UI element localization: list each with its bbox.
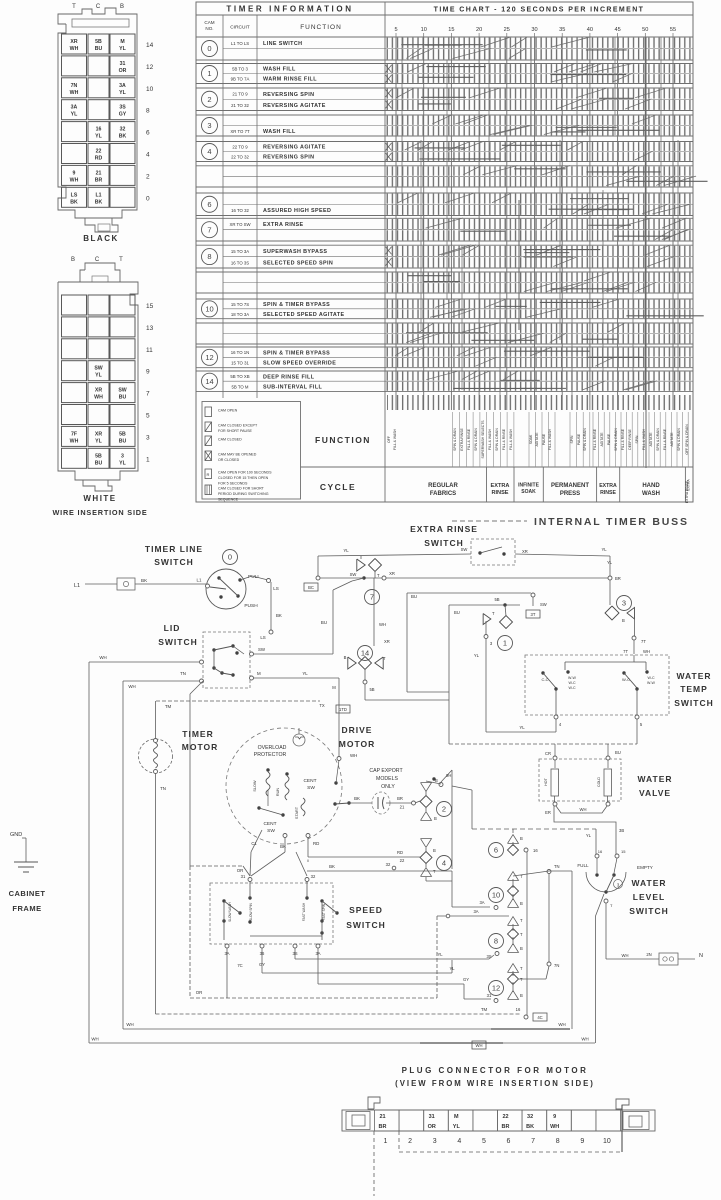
svg-text:VALVE: VALVE	[639, 788, 671, 798]
wire 9 vertical right	[451, 770, 453, 869]
svg-text:T: T	[520, 977, 523, 982]
svg-text:55: 55	[670, 27, 676, 33]
svg-text:14: 14	[361, 649, 369, 658]
legend box	[202, 402, 301, 500]
water valve hot coil	[553, 756, 557, 760]
time chart band cam 8	[386, 246, 692, 256]
speed switch terminal 31	[248, 878, 252, 882]
svg-text:BK: BK	[526, 1124, 534, 1130]
svg-text:LS: LS	[260, 635, 265, 640]
svg-text:1: 1	[503, 639, 507, 648]
svg-text:2: 2	[146, 173, 150, 180]
wire TN below timer motor	[155, 773, 157, 1014]
timer table row cam 14	[196, 370, 693, 372]
svg-text:SLOW WASH: SLOW WASH	[228, 901, 232, 921]
internal timer buss legend	[452, 520, 527, 522]
wire capacitor to cam 2	[386, 802, 412, 804]
svg-text:WH: WH	[550, 1124, 559, 1130]
svg-text:21: 21	[379, 1114, 385, 1120]
timer table row cam 10	[196, 298, 693, 300]
speed switch group 1	[222, 899, 225, 902]
svg-text:WATER: WATER	[676, 671, 711, 681]
svg-text:5: 5	[146, 413, 150, 420]
cam 12 group	[489, 981, 504, 996]
svg-text:FAST SPIN: FAST SPIN	[322, 903, 326, 920]
svg-text:L1 TO LS: L1 TO LS	[231, 41, 249, 46]
drive motor M terminal	[337, 757, 341, 761]
svg-text:4: 4	[457, 1138, 461, 1145]
connector J-WHITE row 15	[62, 295, 87, 315]
svg-text:N: N	[699, 953, 703, 959]
svg-text:TIMER INFORMATION: TIMER INFORMATION	[226, 5, 353, 14]
svg-text:32: 32	[527, 1114, 533, 1120]
plug connector right tab	[616, 1099, 629, 1109]
svg-text:AGITATE: AGITATE	[535, 432, 539, 447]
svg-text:BU: BU	[119, 438, 127, 444]
svg-text:3: 3	[433, 1138, 437, 1145]
svg-text:5B: 5B	[494, 597, 499, 602]
svg-text:22: 22	[400, 858, 405, 863]
svg-text:7: 7	[146, 391, 150, 398]
svg-text:FILL & WASH: FILL & WASH	[548, 429, 552, 450]
svg-text:B: B	[433, 848, 436, 853]
plug connector pin 1	[375, 1110, 400, 1131]
svg-text:16: 16	[533, 848, 538, 853]
svg-text:YL: YL	[601, 547, 607, 552]
timer table header dividers	[196, 14, 693, 16]
cam 1 contacts	[483, 614, 491, 625]
svg-text:YL: YL	[119, 90, 126, 96]
svg-text:3B: 3B	[619, 828, 624, 833]
svg-text:YL: YL	[437, 952, 443, 957]
svg-text:16: 16	[96, 127, 102, 133]
svg-text:YL: YL	[519, 725, 525, 730]
connector J-WHITE row 11	[62, 339, 87, 359]
svg-text:FILL & WASH: FILL & WASH	[642, 429, 646, 450]
cam 2 contacts	[421, 783, 432, 792]
svg-text:32: 32	[386, 862, 391, 867]
svg-text:SLOW: SLOW	[253, 780, 257, 792]
connector J-WHITE row 1	[62, 448, 87, 468]
water level switch body	[586, 872, 626, 892]
svg-text:22 TO 9: 22 TO 9	[232, 145, 248, 150]
svg-text:TIMER LINE: TIMER LINE	[145, 544, 203, 554]
svg-text:7T: 7T	[641, 639, 646, 644]
svg-text:16 TO 32: 16 TO 32	[231, 208, 249, 213]
cam 6 group	[489, 843, 504, 858]
svg-text:TIME CHART - 120 SECONDS PER I: TIME CHART - 120 SECONDS PER INCREMENT	[434, 7, 645, 14]
svg-text:OVERLOAD: OVERLOAD	[258, 745, 287, 751]
wire RD to cam 4	[307, 838, 309, 858]
svg-text:SPIN & DRAIN: SPIN & DRAIN	[656, 428, 660, 451]
svg-text:WARM RINSE FILL: WARM RINSE FILL	[263, 77, 317, 83]
time chart band blank cam row	[386, 273, 692, 282]
svg-text:EXTRA RINSE: EXTRA RINSE	[460, 428, 464, 451]
svg-text:PLUG CONNECTOR FOR MOTOR: PLUG CONNECTOR FOR MOTOR	[402, 1066, 589, 1075]
svg-text:2N: 2N	[646, 952, 651, 957]
svg-text:BK: BK	[276, 613, 282, 618]
svg-text:BU: BU	[411, 594, 417, 599]
svg-text:FILL & RINSE: FILL & RINSE	[467, 428, 471, 450]
svg-text:SPIN & TIMER BYPASS: SPIN & TIMER BYPASS	[263, 302, 330, 308]
svg-text:B: B	[120, 4, 124, 10]
svg-text:BU: BU	[95, 46, 103, 52]
svg-text:TX: TX	[319, 703, 325, 708]
svg-text:REVERSING SPIN: REVERSING SPIN	[263, 92, 314, 98]
svg-text:B: B	[520, 836, 523, 841]
wire 3S to cam8	[294, 948, 296, 959]
wire WH bottom bus upper	[123, 1028, 570, 1030]
svg-text:WASH FILL: WASH FILL	[263, 129, 296, 135]
svg-text:1: 1	[384, 1138, 388, 1145]
cam 1 circle	[498, 636, 513, 651]
connector J-WHITE row 3	[62, 426, 87, 446]
svg-text:1: 1	[207, 69, 211, 78]
svg-text:6: 6	[507, 1138, 511, 1145]
connector J-BLACK outline	[58, 8, 137, 218]
svg-text:SW: SW	[307, 785, 315, 791]
wire WH lid second to left	[123, 680, 199, 682]
plug connector pin 8	[547, 1110, 572, 1131]
svg-text:START: START	[295, 806, 299, 819]
svg-text:PRESS: PRESS	[560, 491, 580, 497]
svg-text:SPIN: SPIN	[635, 435, 639, 443]
cam 4 contacts	[421, 839, 432, 848]
svg-text:SPIN & DRAIN: SPIN & DRAIN	[614, 428, 618, 451]
speed switch box	[210, 883, 333, 944]
svg-text:TM: TM	[481, 1007, 488, 1012]
timer table row cam 7	[196, 217, 693, 219]
svg-text:SUB-INTERVAL FILL: SUB-INTERVAL FILL	[263, 385, 323, 391]
svg-text:INFINITE: INFINITE	[518, 483, 539, 489]
timer table row cam 3	[196, 114, 693, 116]
timer table row cam 0	[196, 36, 693, 38]
svg-text:SWITCH: SWITCH	[346, 920, 386, 930]
wire WH cam7 to cam14	[373, 578, 375, 646]
svg-text:12: 12	[146, 64, 154, 71]
svg-text:3: 3	[146, 434, 150, 441]
time chart band cam 1	[386, 64, 692, 73]
wire WH box label	[472, 1041, 486, 1049]
svg-text:SW: SW	[267, 828, 275, 834]
connector J-BLACK row 10	[62, 78, 87, 98]
svg-text:10: 10	[205, 304, 213, 313]
svg-text:5B: 5B	[119, 431, 126, 437]
svg-text:XR: XR	[95, 431, 102, 437]
svg-text:15 TO 3A: 15 TO 3A	[231, 249, 249, 254]
svg-text:W-C: W-C	[622, 677, 630, 682]
svg-text:BU: BU	[615, 750, 621, 755]
cam 3 circle	[617, 596, 632, 611]
svg-text:YL: YL	[95, 438, 102, 444]
svg-text:FABRICS: FABRICS	[430, 491, 456, 497]
wire YL right vertical to cam3	[609, 556, 611, 601]
svg-text:3: 3	[207, 121, 211, 130]
time chart band cam 6	[386, 194, 692, 204]
svg-text:CAM MAY BE OPENED: CAM MAY BE OPENED	[218, 453, 257, 457]
svg-text:CABINET: CABINET	[9, 889, 46, 898]
svg-text:3S: 3S	[486, 954, 491, 959]
terminal 7T	[632, 636, 636, 640]
svg-text:SWITCH: SWITCH	[424, 538, 464, 548]
svg-text:5: 5	[482, 1138, 486, 1145]
svg-text:BR: BR	[379, 1124, 387, 1130]
svg-text:CAM CLOSED FOR SHORT: CAM CLOSED FOR SHORT	[218, 487, 265, 491]
svg-text:WASH: WASH	[642, 491, 660, 497]
wire BK speed switch to cams right	[307, 870, 452, 872]
wire WH bottom bus lower	[89, 1042, 595, 1044]
svg-text:TN: TN	[180, 671, 186, 676]
svg-text:FILL & RINSE: FILL & RINSE	[593, 428, 597, 450]
terminal CO	[117, 578, 135, 590]
svg-text:WH: WH	[622, 953, 629, 958]
svg-text:3: 3	[121, 453, 124, 459]
svg-text:4C: 4C	[537, 1015, 542, 1020]
connector J-BLACK row 4	[62, 144, 87, 164]
wire YL down to FULL	[595, 829, 597, 854]
svg-text:T: T	[119, 257, 123, 263]
svg-text:FULL: FULL	[577, 863, 589, 868]
timer table row cam 2	[196, 87, 693, 89]
wire BU middle vertical	[406, 593, 408, 692]
svg-text:22: 22	[502, 1114, 508, 1120]
plug connector left end	[346, 1112, 370, 1130]
outer dashed loop speed switch	[190, 865, 243, 867]
svg-text:16: 16	[516, 1007, 521, 1012]
svg-text:SWITCH: SWITCH	[629, 906, 669, 916]
connector J-WHITE row 13	[62, 317, 87, 337]
svg-text:T: T	[520, 932, 523, 937]
svg-text:FOR 5 SECONDS: FOR 5 SECONDS	[218, 482, 248, 486]
wire WH left vertical long	[88, 662, 90, 1043]
svg-text:BK: BK	[70, 199, 78, 205]
svg-text:GY: GY	[119, 112, 127, 118]
svg-text:T: T	[433, 869, 436, 874]
wire BK motor to speed switch 32	[307, 860, 309, 863]
connector J-WHITE row 5	[62, 405, 87, 425]
drive motor outline	[226, 728, 342, 844]
wire BU right vertical	[448, 605, 450, 744]
connector J-BLACK row 6	[62, 122, 87, 142]
svg-text:XR: XR	[522, 549, 528, 554]
svg-text:YL: YL	[607, 560, 613, 565]
svg-text:HAND: HAND	[642, 483, 660, 489]
svg-text:RD: RD	[95, 156, 103, 162]
svg-text:SPIN & DRAIN: SPIN & DRAIN	[677, 428, 681, 451]
water level switch terminals	[595, 854, 599, 858]
svg-text:9: 9	[146, 369, 150, 376]
svg-text:6: 6	[146, 130, 150, 137]
svg-text:BR: BR	[95, 177, 103, 183]
svg-text:OR: OR	[237, 868, 244, 873]
svg-text:SWITCH: SWITCH	[158, 637, 198, 647]
svg-text:31: 31	[429, 1114, 435, 1120]
svg-text:RINSE: RINSE	[491, 490, 508, 496]
wire 3A cam10 horizontal	[437, 915, 509, 917]
svg-text:SW: SW	[461, 547, 468, 552]
svg-text:LS: LS	[273, 586, 279, 591]
svg-text:SPIN: SPIN	[570, 435, 574, 443]
svg-text:FILL & RINSE: FILL & RINSE	[663, 428, 667, 450]
svg-text:7: 7	[370, 593, 374, 602]
svg-text:XR TO 7T: XR TO 7T	[230, 129, 250, 134]
svg-text:5B TO 3: 5B TO 3	[232, 67, 248, 72]
svg-text:YL: YL	[302, 671, 308, 676]
cam 7 circle	[365, 590, 380, 605]
svg-text:3: 3	[622, 599, 626, 608]
svg-text:15: 15	[448, 27, 454, 33]
wire TN lid switch to OR vertical	[190, 681, 203, 694]
svg-text:SUPERWASH SELECTS: SUPERWASH SELECTS	[481, 420, 485, 459]
svg-text:R: R	[207, 472, 210, 477]
cam 2 circle	[437, 802, 452, 817]
svg-text:PAUSE: PAUSE	[607, 433, 611, 445]
svg-text:CAM OPEN: CAM OPEN	[218, 409, 238, 413]
svg-text:PERIOD DURING SWITCHING: PERIOD DURING SWITCHING	[218, 492, 269, 496]
svg-text:LINE SWITCH: LINE SWITCH	[263, 41, 302, 47]
svg-text:7: 7	[207, 225, 211, 234]
legend symbol	[205, 407, 212, 417]
legend symbol	[205, 422, 212, 432]
legend symbol	[205, 436, 212, 446]
svg-text:40: 40	[587, 27, 593, 33]
time chart band cam 3	[386, 116, 692, 125]
plug connector pin2 wire loop	[399, 1131, 622, 1152]
water temp switch right contacts	[622, 671, 625, 674]
svg-text:7N: 7N	[71, 83, 78, 89]
svg-text:PAUSE: PAUSE	[577, 433, 581, 445]
svg-text:20: 20	[476, 27, 482, 33]
svg-text:PERMANENT: PERMANENT	[551, 483, 589, 489]
wire L1 to timer line switch	[135, 583, 206, 585]
svg-text:2: 2	[207, 95, 211, 104]
svg-text:0: 0	[146, 195, 150, 202]
svg-text:8: 8	[494, 937, 498, 946]
lid switch SW terminal	[250, 652, 254, 656]
svg-text:SPIN & DRAIN: SPIN & DRAIN	[453, 428, 457, 451]
time chart band cam 12	[386, 348, 692, 357]
svg-text:SPIN & DRAIN: SPIN & DRAIN	[583, 428, 587, 451]
wire water level blade to WH bus	[596, 894, 605, 916]
svg-text:30: 30	[531, 27, 537, 33]
connector J-BLACK row 12	[62, 56, 87, 76]
wire GY to cam12	[317, 948, 319, 984]
wire BC corner	[317, 556, 319, 576]
plug connector pin 10	[596, 1110, 621, 1131]
svg-text:4: 4	[146, 152, 150, 159]
svg-text:22 TO 32: 22 TO 32	[231, 155, 249, 160]
timer table row cam 1	[196, 63, 693, 65]
svg-text:EXTRA: EXTRA	[599, 483, 617, 489]
lid switch lower contact	[212, 666, 215, 669]
svg-text:CIRCUIT: CIRCUIT	[230, 25, 250, 31]
svg-text:LID: LID	[164, 623, 181, 633]
svg-text:WH: WH	[350, 753, 357, 758]
svg-text:EXTRA RINSE: EXTRA RINSE	[263, 222, 303, 228]
legend symbol	[205, 469, 212, 479]
svg-text:B: B	[71, 257, 75, 263]
svg-text:FILL & WASH: FILL & WASH	[393, 429, 397, 450]
cam 4 circle	[437, 856, 452, 871]
plug connector pin 6	[498, 1110, 523, 1131]
svg-text:SOAK: SOAK	[529, 434, 533, 444]
svg-text:BK: BK	[119, 134, 127, 140]
water temp switch left contacts	[541, 671, 544, 674]
svg-text:CR: CR	[545, 751, 551, 756]
svg-text:5B: 5B	[95, 39, 102, 45]
water valve cold coil	[606, 756, 610, 760]
svg-text:WH: WH	[643, 649, 650, 654]
svg-text:EXTRA RINSE: EXTRA RINSE	[685, 480, 689, 503]
svg-text:WH: WH	[70, 177, 79, 183]
svg-text:CLOSED FOR 15 THEN OPEN: CLOSED FOR 15 THEN OPEN	[218, 476, 269, 480]
svg-text:XR: XR	[389, 571, 395, 576]
node 9 to cam2 top	[439, 783, 443, 787]
svg-text:T: T	[520, 966, 523, 971]
svg-text:T: T	[492, 611, 495, 616]
drive motor terminals bottom	[283, 834, 287, 838]
svg-text:C-C: C-C	[541, 677, 548, 682]
svg-text:YL: YL	[343, 548, 349, 553]
svg-text:L1: L1	[197, 578, 202, 583]
wire 16 vertical cam6 to 4C	[526, 851, 528, 1015]
svg-text:RINSE: RINSE	[600, 490, 616, 496]
svg-text:MOTOR: MOTOR	[339, 739, 375, 749]
svg-text:WH: WH	[126, 1022, 133, 1027]
svg-text:WH: WH	[70, 438, 79, 444]
svg-text:C: C	[95, 257, 100, 263]
wire M lid switch to drive motor	[254, 677, 340, 679]
svg-text:8: 8	[146, 108, 150, 115]
wire C1 to speed switch	[251, 830, 262, 852]
svg-text:12: 12	[492, 984, 500, 993]
plug connector pin 5	[473, 1110, 498, 1131]
svg-text:LEVEL: LEVEL	[633, 892, 665, 902]
connector J-WHITE row 9	[62, 361, 87, 381]
svg-text:BR: BR	[502, 1124, 510, 1130]
svg-text:9: 9	[553, 1114, 556, 1120]
svg-text:15 TO 31: 15 TO 31	[231, 361, 249, 366]
terminal block N	[659, 953, 678, 965]
svg-text:SOAK: SOAK	[521, 489, 536, 495]
svg-text:WH: WH	[128, 684, 135, 689]
svg-text:RUN: RUN	[276, 788, 280, 796]
svg-text:ASSURED HIGH SPEED: ASSURED HIGH SPEED	[263, 208, 331, 214]
svg-text:FILL & RINSE: FILL & RINSE	[502, 428, 506, 450]
svg-text:WATER: WATER	[637, 774, 672, 784]
svg-text:BK: BK	[95, 199, 103, 205]
svg-text:FOR SHORT PAUSE: FOR SHORT PAUSE	[218, 429, 253, 433]
svg-text:NO.: NO.	[205, 26, 213, 31]
svg-text:YL: YL	[71, 112, 78, 118]
svg-text:1: 1	[146, 456, 150, 463]
svg-text:PROTECTOR: PROTECTOR	[254, 752, 287, 758]
svg-text:T: T	[72, 4, 76, 10]
svg-text:WH: WH	[581, 1037, 588, 1042]
svg-text:0: 0	[228, 553, 232, 562]
wire terminal 5	[635, 715, 639, 719]
svg-text:W-C: W-C	[568, 686, 576, 690]
svg-text:16 TO 3S: 16 TO 3S	[231, 260, 249, 265]
wire BU bus y744	[449, 743, 637, 745]
svg-text:CYCLE: CYCLE	[320, 482, 356, 492]
svg-text:GY: GY	[463, 977, 469, 982]
svg-text:XR: XR	[95, 388, 102, 394]
svg-text:REVERSING SPIN: REVERSING SPIN	[263, 155, 314, 161]
svg-text:10: 10	[146, 86, 154, 93]
water temp switch box	[525, 655, 669, 715]
svg-text:GND: GND	[10, 832, 22, 838]
